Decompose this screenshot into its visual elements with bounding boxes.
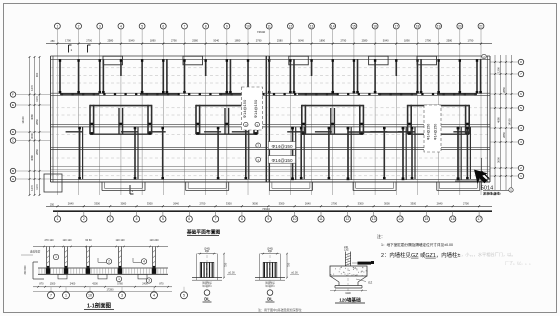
svg-text:300 600: 300 600 (24, 265, 27, 275)
svg-text:7: 7 (50, 294, 52, 298)
svg-text:1470: 1470 (30, 85, 34, 91)
svg-text:Φ14@150: Φ14@150 (271, 144, 293, 149)
svg-text:13: 13 (310, 24, 314, 28)
svg-text:5: 5 (162, 217, 164, 221)
svg-text:3300: 3300 (410, 202, 416, 206)
svg-text:5: 5 (141, 24, 143, 28)
svg-text:16: 16 (373, 24, 377, 28)
svg-text:7: 7 (215, 217, 217, 221)
svg-text:250: 250 (51, 40, 56, 43)
svg-text:2790: 2790 (340, 39, 346, 43)
svg-text:3000: 3000 (252, 202, 258, 206)
svg-text:2850: 2850 (502, 87, 506, 93)
svg-text:2700: 2700 (86, 39, 92, 43)
svg-text:8: 8 (241, 217, 243, 221)
svg-text:5040: 5040 (213, 39, 219, 43)
svg-text:2700: 2700 (331, 202, 337, 206)
svg-text:16: 16 (451, 217, 455, 221)
svg-text:2400: 2400 (70, 283, 76, 286)
svg-text:7: 7 (184, 24, 186, 28)
svg-text:2850: 2850 (35, 149, 39, 155)
svg-text:DL: DL (204, 297, 210, 302)
svg-text:1: 1 (118, 277, 120, 281)
svg-text:2850: 2850 (502, 132, 506, 138)
svg-text:3300: 3300 (226, 202, 232, 206)
svg-text:3: 3 (121, 294, 123, 298)
svg-text:14: 14 (398, 217, 402, 221)
svg-text:3000: 3000 (496, 157, 500, 163)
svg-text:2640: 2640 (173, 202, 179, 206)
svg-text:2640: 2640 (305, 202, 311, 206)
svg-text:3: 3 (520, 140, 522, 144)
svg-text:2: 2 (520, 166, 522, 170)
svg-text:1：地下室肛勘分隔及隔墙定位尺寸详见±0.00: 1：地下室肛勘分隔及隔墙定位尺寸详见±0.00 (381, 242, 453, 247)
svg-text:5: 5 (183, 294, 185, 298)
svg-text:2580: 2580 (107, 39, 113, 43)
svg-text:素砍垫层: 素砍垫层 (30, 249, 41, 253)
svg-text:2640: 2640 (68, 202, 74, 206)
svg-text:9: 9 (267, 217, 269, 221)
svg-text:加深部位: 加深部位 (202, 283, 212, 287)
svg-text:250: 250 (50, 204, 55, 207)
svg-text:4080: 4080 (496, 117, 500, 123)
svg-text:14: 14 (331, 24, 335, 28)
svg-text:3300: 3300 (94, 202, 100, 206)
svg-text:4080: 4080 (30, 114, 34, 120)
svg-text:14100: 14100 (21, 116, 25, 124)
svg-text:900: 900 (35, 72, 39, 77)
svg-text:120 240: 120 240 (149, 239, 159, 242)
svg-text:F: F (12, 93, 14, 97)
svg-text:1: 1 (56, 24, 58, 28)
svg-text:±0.00: ±0.00 (228, 271, 235, 275)
svg-text:60 60: 60 60 (85, 239, 92, 242)
svg-text:13: 13 (372, 217, 376, 221)
svg-text:2580: 2580 (277, 39, 283, 43)
svg-text:11: 11 (267, 24, 271, 28)
svg-text:波浪线(虚线): 波浪线(虚线) (483, 191, 501, 196)
svg-text:2400: 2400 (142, 283, 148, 286)
svg-text:GZ: GZ (368, 281, 372, 285)
svg-text:2：内墙柱见GZ 或GZ1，内墙柱±: 2：内墙柱见GZ 或GZ1，内墙柱± (381, 251, 460, 259)
svg-text:4: 4 (143, 260, 145, 264)
svg-text:10: 10 (246, 24, 250, 28)
svg-text:3: 3 (99, 24, 101, 28)
svg-text:870: 870 (39, 283, 44, 286)
svg-text:8: 8 (205, 24, 207, 28)
svg-text:15: 15 (352, 24, 356, 28)
svg-text:2580: 2580 (362, 39, 368, 43)
svg-text:1890: 1890 (319, 39, 325, 43)
svg-text:2: 2 (83, 217, 85, 221)
svg-text:7: 7 (520, 72, 522, 76)
svg-text:Φ14@150: Φ14@150 (427, 124, 431, 141)
svg-text:4: 4 (120, 24, 122, 28)
svg-text:1: 1 (57, 217, 59, 221)
svg-text:B: B (12, 169, 14, 173)
svg-text:±0.00: ±0.00 (291, 271, 298, 275)
svg-text:14100: 14100 (507, 118, 511, 126)
svg-text:1890: 1890 (404, 39, 410, 43)
svg-text:2790: 2790 (256, 39, 262, 43)
svg-text:870: 870 (159, 283, 164, 286)
svg-text:4: 4 (136, 217, 138, 221)
svg-text:3000: 3000 (30, 133, 34, 139)
svg-text:注：: 注： (377, 233, 385, 239)
svg-text:6: 6 (520, 92, 522, 96)
svg-text:15: 15 (425, 217, 429, 221)
svg-text:3000: 3000 (120, 202, 126, 206)
svg-text:1000: 1000 (345, 292, 351, 295)
svg-text:基础平面布置图: 基础平面布置图 (187, 229, 221, 236)
svg-text:1890: 1890 (150, 39, 156, 43)
svg-text:5760: 5760 (117, 283, 123, 286)
svg-text:Φ14@150: Φ14@150 (253, 99, 258, 118)
svg-text:4: 4 (520, 126, 522, 130)
svg-text:1790: 1790 (65, 39, 71, 43)
svg-text:3300: 3300 (279, 202, 285, 206)
svg-text:6: 6 (188, 217, 190, 221)
svg-text:2790: 2790 (171, 39, 177, 43)
svg-text:2640: 2640 (437, 202, 443, 206)
svg-text:1470: 1470 (30, 185, 34, 191)
svg-text:1500: 1500 (50, 283, 56, 286)
svg-text:加深部位: 加深部位 (265, 283, 275, 287)
svg-text:E: E (12, 103, 14, 107)
svg-text:12: 12 (289, 24, 293, 28)
svg-text:11: 11 (319, 217, 323, 221)
svg-text:5040: 5040 (298, 39, 304, 43)
svg-text:4: 4 (153, 294, 155, 298)
svg-text:3000: 3000 (384, 202, 390, 206)
svg-text:450: 450 (268, 250, 273, 253)
svg-text:。，小，。，水平相谷厂门，以。: 。，小，。，水平相谷厂门，以。 (459, 251, 516, 258)
svg-text:20: 20 (458, 24, 462, 28)
svg-text:120墙基础: 120墙基础 (339, 296, 361, 303)
svg-text:120 120: 120 120 (62, 239, 72, 242)
svg-text:3300: 3300 (147, 202, 153, 206)
svg-text:1890: 1890 (235, 39, 241, 43)
svg-text:2790: 2790 (425, 39, 431, 43)
svg-text:120 120: 120 120 (115, 239, 125, 242)
svg-text:Φ14@150: Φ14@150 (434, 124, 438, 141)
svg-text:21: 21 (479, 24, 483, 28)
svg-text:74640: 74640 (262, 207, 270, 211)
svg-text:1: 1 (520, 174, 522, 178)
svg-text:厂了。以，。。: 厂了。以，。。 (505, 260, 533, 266)
svg-text:1170: 1170 (35, 96, 39, 102)
svg-text:3300: 3300 (358, 202, 364, 206)
svg-text:2: 2 (108, 260, 110, 264)
svg-text:18: 18 (416, 24, 420, 28)
svg-text:2580: 2580 (446, 39, 452, 43)
svg-text:750: 750 (224, 262, 228, 267)
svg-text:17: 17 (477, 217, 481, 221)
svg-text:270 120: 270 120 (44, 239, 54, 242)
svg-text:1: 1 (55, 255, 57, 259)
svg-text:17280: 17280 (107, 288, 115, 291)
svg-text:450: 450 (205, 250, 210, 253)
svg-text:3: 3 (148, 279, 150, 283)
svg-text:2850: 2850 (35, 119, 39, 125)
svg-text:DL: DL (267, 297, 273, 302)
svg-text:4200: 4200 (92, 283, 98, 286)
svg-text:1: 1 (65, 294, 67, 298)
svg-text:5040: 5040 (383, 39, 389, 43)
svg-text:3: 3 (109, 217, 111, 221)
svg-text:1200: 1200 (496, 67, 500, 73)
svg-text:2700: 2700 (463, 202, 469, 206)
svg-text:8: 8 (520, 60, 522, 64)
svg-text:750: 750 (287, 262, 291, 267)
svg-text:Φ14@150: Φ14@150 (271, 158, 293, 163)
svg-text:注：用于图中]]基础垫层加深部位: 注：用于图中]]基础垫层加深部位 (258, 307, 302, 312)
svg-text:2: 2 (78, 24, 80, 28)
svg-text:2700: 2700 (200, 202, 206, 206)
svg-text:1-1剖面图: 1-1剖面图 (87, 302, 112, 310)
svg-text:10: 10 (293, 217, 297, 221)
svg-text:9: 9 (226, 24, 228, 28)
svg-text:74640: 74640 (257, 30, 266, 34)
svg-text:12: 12 (345, 217, 349, 221)
svg-text:Φ14@150: Φ14@150 (242, 99, 247, 118)
svg-text:4080: 4080 (30, 155, 34, 161)
svg-text:5: 5 (520, 106, 522, 110)
svg-text:19: 19 (437, 24, 441, 28)
svg-text:2580: 2580 (192, 39, 198, 43)
svg-text:5040: 5040 (129, 39, 135, 43)
svg-text:6: 6 (162, 24, 164, 28)
svg-text:1790: 1790 (468, 39, 474, 43)
svg-text:5014: 5014 (481, 185, 493, 191)
svg-text:1170: 1170 (35, 184, 39, 190)
svg-text:10: 10 (88, 294, 92, 298)
svg-text:17: 17 (394, 24, 398, 28)
